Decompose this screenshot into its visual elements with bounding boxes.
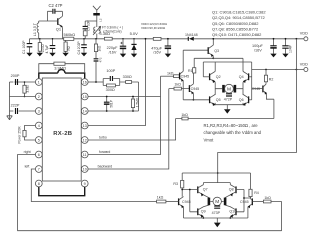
base rail Q8 Q10 bbox=[236, 190, 251, 212]
svg-text:1kΩ: 1kΩ bbox=[157, 195, 164, 199]
svg-text:200P: 200P bbox=[11, 74, 20, 78]
svg-text:5: 5 bbox=[38, 139, 40, 143]
wire pin6 right-loop bbox=[18, 150, 282, 231]
capacitor 561P bbox=[104, 96, 114, 112]
svg-text:Q1: C9018,C1815,C380,C382: Q1: C9018,C1815,C380,C382 bbox=[212, 10, 266, 15]
svg-text:3: 3 bbox=[38, 110, 40, 114]
resistor 3.9M top bbox=[39, 62, 85, 73]
svg-text:561P: 561P bbox=[109, 100, 113, 107]
svg-text:220μF: 220μF bbox=[107, 46, 119, 50]
pin 3 bbox=[35, 108, 42, 115]
pin 5 bbox=[35, 137, 42, 144]
wire Q3 base from driver1 bbox=[183, 49, 208, 51]
transistor C945 lower-right driver bbox=[240, 197, 263, 218]
svg-text:2: 2 bbox=[38, 95, 40, 99]
resistor 1k lower-left bbox=[157, 195, 179, 203]
svg-text:turbo: turbo bbox=[99, 135, 107, 139]
wire pin1 left with capacitor 200P bbox=[10, 74, 36, 85]
trimmer box under C3 bbox=[83, 29, 87, 39]
capacitor C2 47P bbox=[49, 3, 63, 14]
svg-text:R3: R3 bbox=[173, 182, 178, 186]
wire pin11 forward bbox=[88, 76, 160, 154]
pin 15 bbox=[81, 93, 88, 100]
svg-text:backward: backward bbox=[98, 164, 113, 168]
wire pin15 row bbox=[88, 96, 160, 98]
svg-text:forward: forward bbox=[99, 150, 110, 154]
terminal Vdd bbox=[296, 32, 309, 41]
inductor L1 3.5T bbox=[33, 21, 39, 39]
wire pin16 row bbox=[88, 81, 103, 83]
svg-text:560kΩ: 560kΩ bbox=[64, 32, 76, 37]
svg-text:3.3kΩ: 3.3kΩ bbox=[99, 31, 110, 36]
thick U wire pins 8-9 bbox=[39, 187, 85, 196]
svg-text:13: 13 bbox=[83, 124, 87, 128]
capacitor 220uF/16V bbox=[107, 39, 127, 58]
svg-text:100Ω: 100Ω bbox=[41, 44, 45, 53]
wire drivers emitters to Q5 base bbox=[183, 99, 209, 101]
resistor R1 bbox=[188, 57, 214, 73]
transistor Q3 bbox=[208, 38, 243, 62]
motor M2 bbox=[208, 197, 227, 205]
capacitor 4.7uF bbox=[45, 39, 56, 57]
svg-text:16: 16 bbox=[83, 81, 87, 85]
parallel RC 100P / 300 bbox=[103, 69, 125, 92]
svg-text:100μF: 100μF bbox=[252, 44, 264, 48]
svg-text:L2: L2 bbox=[99, 18, 103, 22]
zener diode 5V bbox=[131, 39, 137, 58]
resistor 330 bbox=[123, 75, 139, 111]
resistor 3.3k on rail bbox=[99, 31, 112, 40]
transistor list note bbox=[212, 10, 266, 37]
wire line A top of bridge bbox=[203, 62, 251, 100]
pin 16 bbox=[81, 79, 88, 86]
pin 14 bbox=[81, 108, 88, 115]
svg-text:472: 472 bbox=[98, 57, 102, 62]
capacitor C4 202P bbox=[77, 39, 87, 57]
svg-text:left: left bbox=[25, 164, 30, 168]
svg-text:Power 250K: Power 250K bbox=[18, 125, 22, 143]
svg-text:changeable with the Vddm and: changeable with the Vddm and bbox=[204, 130, 262, 135]
svg-text:14: 14 bbox=[83, 110, 87, 114]
resistor 1k to C945 no1 bbox=[161, 72, 180, 78]
capacitor C2 loop wires bbox=[48, 11, 63, 21]
svg-text:1kΩ: 1kΩ bbox=[264, 196, 271, 200]
thick wire pin1 to pin16 with hop bbox=[39, 70, 85, 79]
svg-text:472P: 472P bbox=[224, 97, 233, 101]
capacitor 473P motor2 bbox=[212, 206, 221, 215]
svg-text:Q4: Q4 bbox=[239, 75, 244, 79]
pin 2 bbox=[35, 93, 42, 100]
svg-text:Q10: Q10 bbox=[229, 209, 236, 213]
motor M1 bbox=[215, 84, 243, 93]
wire Vmot to lower bridge bbox=[218, 39, 297, 183]
terminal Vmot bbox=[300, 62, 308, 71]
svg-text:9: 9 bbox=[84, 182, 86, 186]
svg-text:VDD=9V,R=220Ω: VDD=9V,R=220Ω bbox=[141, 26, 166, 30]
svg-text:Q7,Q8: 8550,C8550,B772: Q7,Q8: 8550,C8550,B772 bbox=[212, 26, 259, 31]
wire pin3 left with capacitor 222P bbox=[10, 104, 36, 114]
svg-text:4: 4 bbox=[38, 124, 40, 128]
svg-text:12: 12 bbox=[83, 139, 87, 143]
svg-text:C1 100P: C1 100P bbox=[22, 40, 26, 54]
svg-text:VDD: VDD bbox=[300, 32, 308, 36]
svg-text:Vmot: Vmot bbox=[204, 137, 215, 142]
resistor 1k vertical at x96 bbox=[94, 39, 101, 58]
capacitor 100uF/16V bbox=[252, 38, 277, 58]
label VDD=12V note bbox=[141, 22, 168, 30]
svg-text:1: 1 bbox=[38, 81, 40, 85]
FT note text bbox=[102, 25, 123, 33]
wire pin7 left-loop bbox=[25, 164, 157, 201]
wire pin13 Vcc riser bbox=[88, 38, 146, 126]
svg-text:C4 202P: C4 202P bbox=[77, 41, 81, 55]
svg-text:R2: R2 bbox=[269, 77, 274, 81]
transistor Q4 bbox=[239, 62, 252, 95]
svg-text:M: M bbox=[227, 87, 231, 93]
wire pin14 row bbox=[88, 110, 138, 112]
transistor Q2 bbox=[203, 62, 220, 95]
capacitor 470uF/16V bbox=[151, 38, 171, 58]
svg-text:1.5MΩ: 1.5MΩ bbox=[135, 97, 139, 107]
svg-text:R2: R2 bbox=[67, 46, 71, 50]
wire antenna to C3 branch bbox=[85, 21, 97, 26]
transistor Q5 bbox=[210, 94, 221, 106]
resistor R4 bbox=[249, 189, 259, 196]
resistor 1k to C945 no2 bbox=[169, 83, 190, 90]
svg-text:right: right bbox=[24, 150, 31, 154]
svg-text:Q9: Q9 bbox=[201, 209, 206, 213]
transistor Q8 bbox=[225, 183, 236, 198]
pin 1 bbox=[35, 79, 42, 86]
svg-text:Q5: Q5 bbox=[216, 98, 221, 102]
svg-text:1kΩ: 1kΩ bbox=[98, 45, 102, 51]
svg-text:1N4148: 1N4148 bbox=[185, 33, 198, 37]
svg-text:C945: C945 bbox=[181, 75, 190, 79]
svg-text:473P: 473P bbox=[212, 211, 221, 215]
capacitor 472 small bbox=[94, 57, 103, 82]
transistor Q9 bbox=[198, 205, 209, 218]
svg-text:8: 8 bbox=[38, 182, 40, 186]
pin 9 bbox=[81, 180, 88, 187]
svg-text:6: 6 bbox=[38, 153, 40, 157]
svg-text:Q5,Q6: C8050/8050,D882: Q5,Q6: C8050/8050,D882 bbox=[212, 21, 259, 26]
base rail Q7 Q9 bbox=[181, 189, 198, 212]
capacitor 104P bbox=[282, 38, 292, 58]
wire Q1 base bbox=[39, 20, 58, 22]
IC RX-2B body bbox=[42, 78, 81, 181]
svg-text:M: M bbox=[215, 199, 219, 205]
svg-text:Q8: Q8 bbox=[229, 188, 234, 192]
svg-text:3.9M: 3.9M bbox=[26, 85, 30, 92]
resistor 1k lower-right bbox=[263, 196, 281, 231]
svg-text:100P: 100P bbox=[106, 69, 115, 73]
transistor Q6 bbox=[239, 94, 252, 106]
svg-text:RX-2B: RX-2B bbox=[53, 131, 72, 137]
svg-text:330Ω: 330Ω bbox=[123, 75, 132, 79]
resistor 100ohm bbox=[37, 39, 45, 57]
svg-text:1kΩ: 1kΩ bbox=[167, 72, 174, 76]
lower bridge outer rail bbox=[182, 173, 250, 189]
ferrite rod FT bbox=[93, 13, 102, 26]
svg-text:222P: 222P bbox=[11, 104, 20, 108]
variable coil bbox=[93, 26, 101, 39]
rail junction dots bbox=[39, 38, 135, 40]
capacitor 472P motor bbox=[224, 94, 233, 102]
svg-text:Q6: Q6 bbox=[239, 98, 244, 102]
resistor 1M between pin1 and pin2 wires bbox=[23, 81, 30, 97]
transistor C945 no2 bbox=[189, 73, 199, 101]
svg-text:L1 3.5 T: L1 3.5 T bbox=[33, 22, 37, 36]
resistor R2 bbox=[62, 40, 70, 56]
transistor C945 lower-left driver bbox=[179, 197, 191, 218]
svg-text:/16V: /16V bbox=[254, 48, 262, 52]
svg-text:Q1: Q1 bbox=[56, 27, 62, 32]
transistor C945 no3 bbox=[252, 84, 274, 119]
svg-text:104P: 104P bbox=[288, 44, 292, 53]
resistor R on rail bbox=[153, 37, 161, 40]
svg-text:/16V: /16V bbox=[109, 50, 117, 54]
wire pin12 turbo bbox=[88, 119, 176, 141]
svg-text:C945: C945 bbox=[191, 87, 200, 91]
wire pin2 left bbox=[10, 96, 36, 98]
diode 1N4148 bbox=[185, 33, 198, 41]
svg-text:1kΩ: 1kΩ bbox=[181, 113, 188, 117]
svg-text:11: 11 bbox=[83, 153, 87, 157]
node dots bottom rail bbox=[203, 217, 205, 219]
svg-text:Q2: Q2 bbox=[216, 75, 221, 79]
svg-text:7: 7 bbox=[38, 168, 40, 172]
pin 11 bbox=[81, 151, 88, 158]
pin 13 bbox=[81, 122, 88, 129]
wire pin10 backward bbox=[88, 89, 169, 169]
pin 12 bbox=[81, 137, 88, 144]
pin 6 bbox=[35, 151, 42, 158]
svg-text:4.7μF: 4.7μF bbox=[45, 45, 49, 54]
svg-text:/16V: /16V bbox=[153, 51, 161, 55]
svg-text:10: 10 bbox=[83, 168, 87, 172]
svg-text:R1: R1 bbox=[188, 69, 193, 73]
svg-text:R4: R4 bbox=[254, 191, 259, 195]
svg-text:VDD: VDD bbox=[300, 62, 308, 66]
svg-text:5.0V: 5.0V bbox=[130, 31, 139, 36]
resistor R2 bridge bbox=[264, 70, 273, 84]
svg-text:C2 47P: C2 47P bbox=[49, 3, 63, 8]
svg-text:Q3: Q3 bbox=[214, 49, 219, 53]
antenna bbox=[93, 6, 101, 13]
capacitor C3 bbox=[83, 20, 91, 31]
resistor 1k turbo line bbox=[176, 113, 274, 120]
resistor Power 250K pins 4-5 bbox=[18, 125, 36, 143]
pin 8 bbox=[35, 180, 42, 187]
svg-text:1kΩ: 1kΩ bbox=[174, 83, 181, 87]
transistor Q7 bbox=[198, 183, 209, 198]
svg-text:C3 10P: C3 10P bbox=[87, 20, 91, 31]
pin 7 bbox=[35, 166, 42, 173]
svg-text:Q7: Q7 bbox=[203, 188, 208, 192]
note text R1-R4 bbox=[204, 123, 262, 142]
motor rail Vmot bbox=[252, 69, 304, 71]
resistor R3 bbox=[173, 180, 183, 196]
resistor 1.5M vertical bbox=[131, 96, 139, 112]
lower bridge inner rail bbox=[203, 182, 230, 184]
svg-text:C945: C945 bbox=[182, 200, 191, 204]
transistor Q1 bbox=[56, 16, 63, 39]
svg-text:Q9,Q10: D471,C8050,D882: Q9,Q10: D471,C8050,D882 bbox=[212, 32, 262, 37]
capacitor C1 100P bbox=[22, 39, 33, 57]
svg-text:15: 15 bbox=[83, 95, 87, 99]
transistor C945 no1 bbox=[180, 50, 190, 100]
svg-text:R1,R2,R3,R4=80~150Ω , are: R1,R2,R3,R4=80~150Ω , are bbox=[204, 123, 259, 128]
pin 4 bbox=[35, 122, 42, 129]
resistor 560k on rail bbox=[64, 32, 76, 40]
bridge ground upper bbox=[215, 105, 243, 114]
svg-text:C945: C945 bbox=[240, 200, 249, 204]
pin 10 bbox=[81, 166, 88, 173]
svg-text:Q2,Q3,Q4: 9014,C8550,B772: Q2,Q3,Q4: 9014,C8550,B772 bbox=[212, 15, 265, 20]
svg-text:3.9MΩ: 3.9MΩ bbox=[54, 65, 66, 70]
transistor Q10 bbox=[225, 205, 236, 218]
lower bridge bottom rail and ground bbox=[184, 217, 248, 227]
svg-text:300Ω: 300Ω bbox=[106, 88, 115, 92]
svg-text:470μF: 470μF bbox=[151, 46, 163, 50]
ground arrow left column bbox=[7, 82, 13, 120]
main rail bbox=[30, 38, 304, 40]
